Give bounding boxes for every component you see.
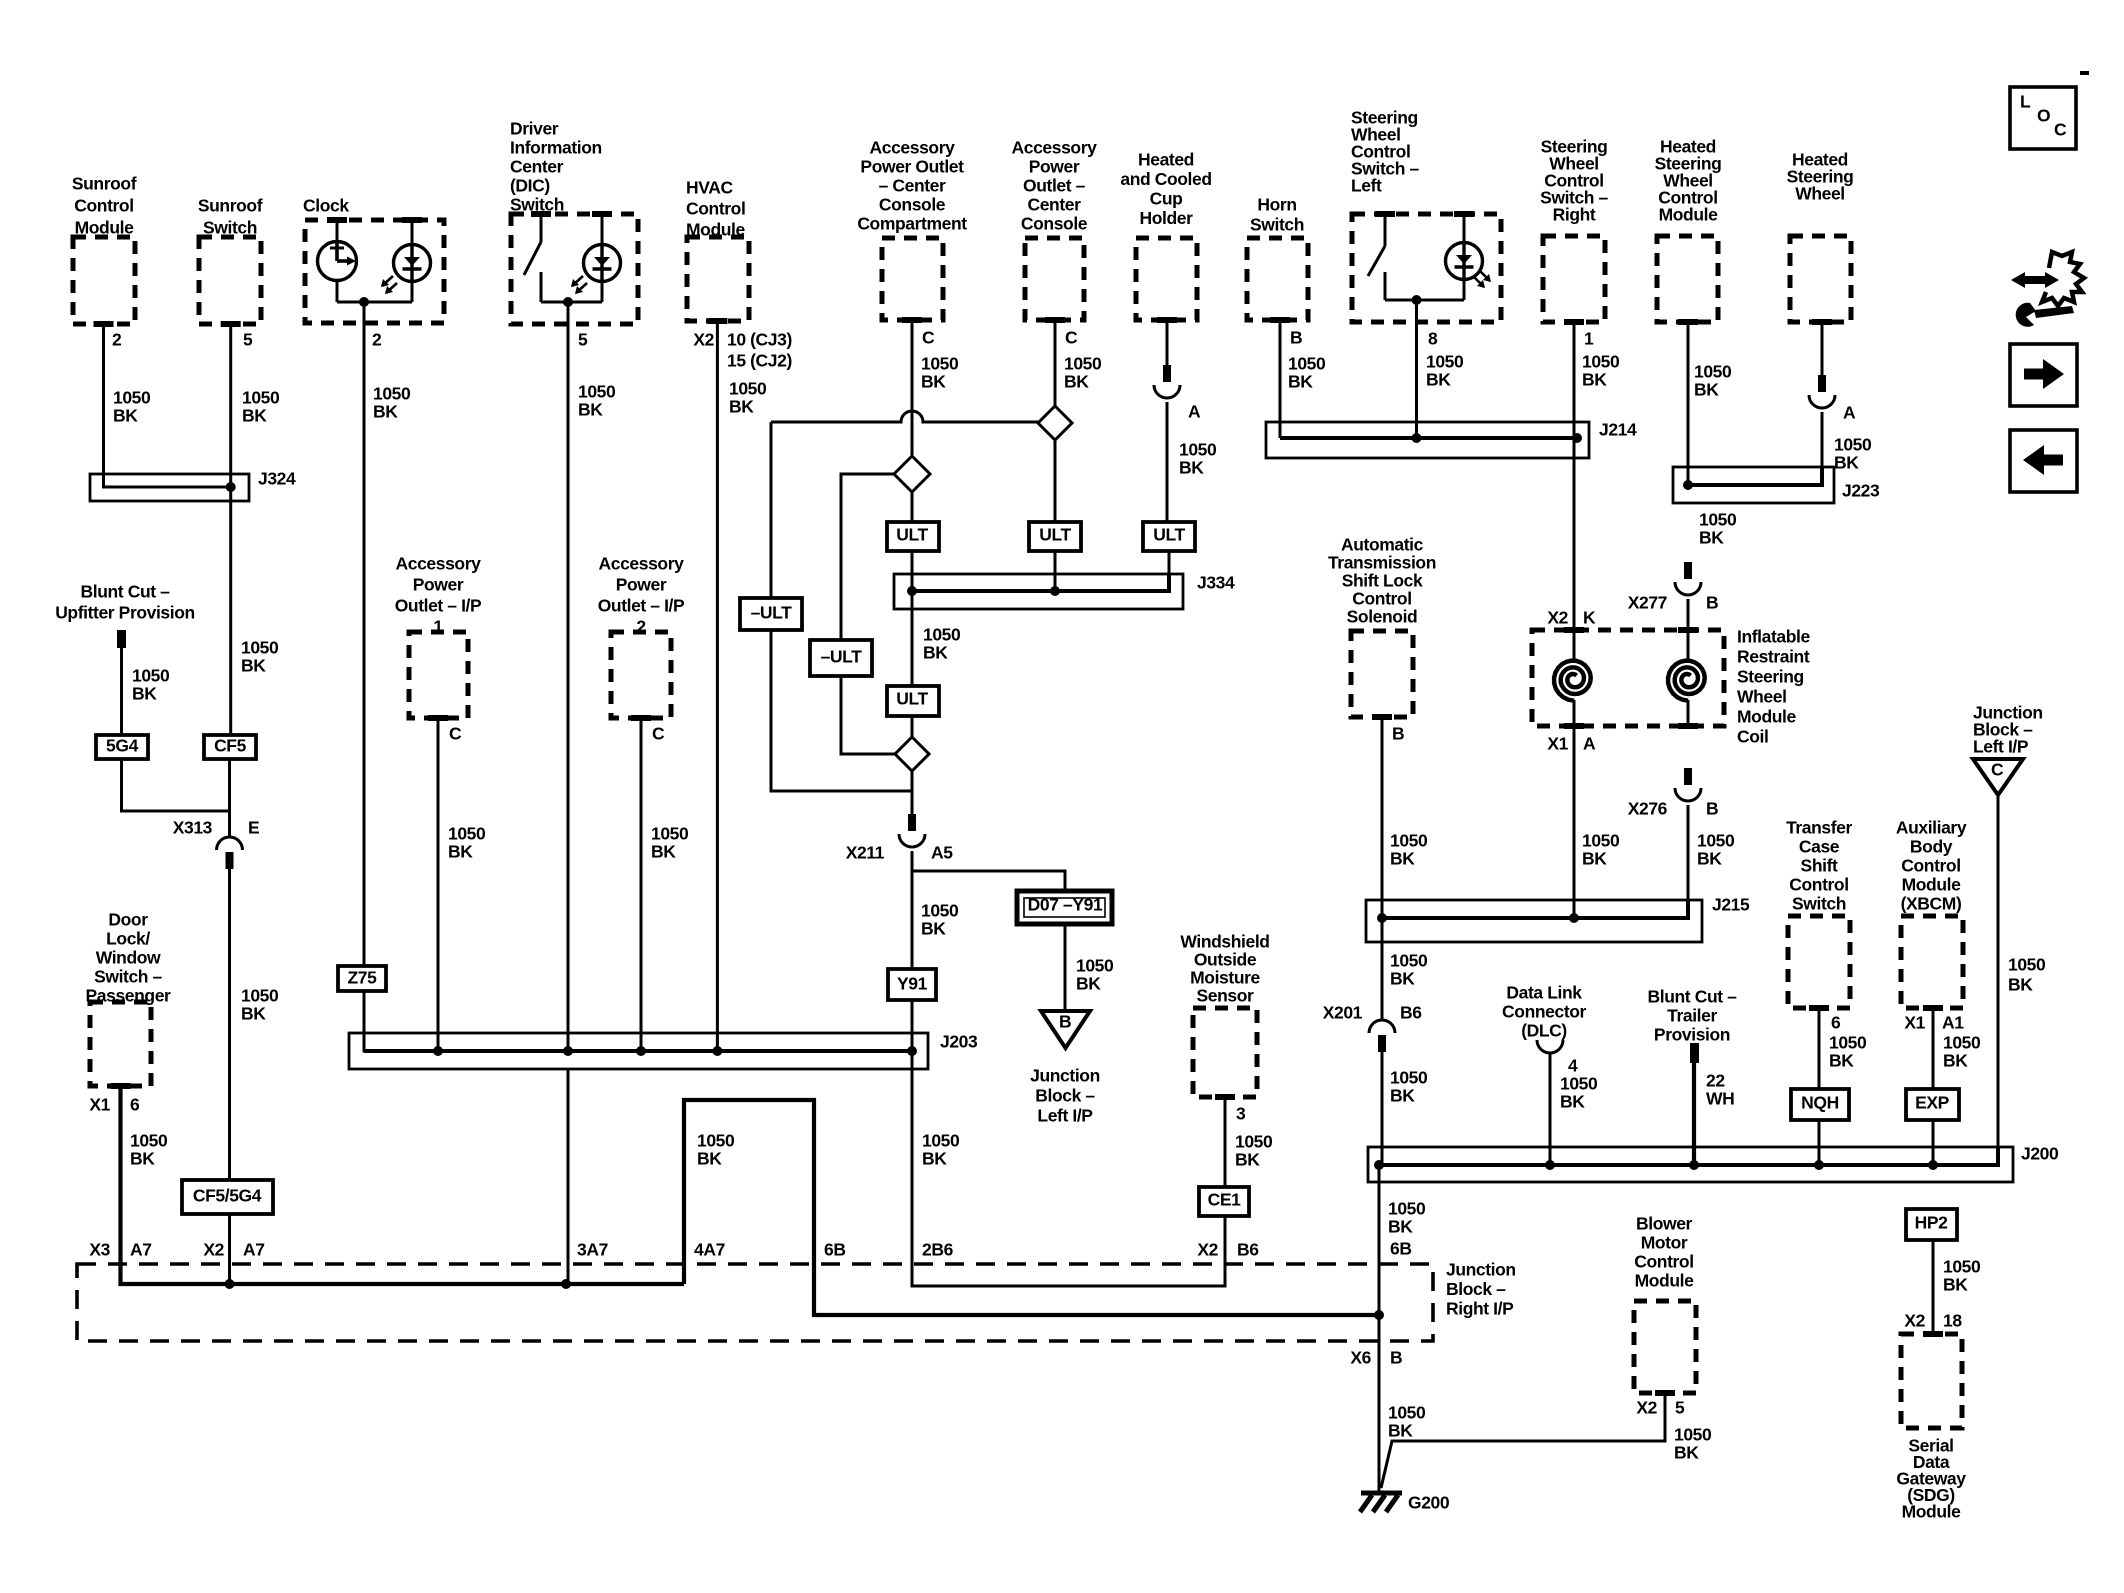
- SWCS-L switch contact: [1368, 214, 1385, 300]
- svg-text:Connector: Connector: [1502, 1002, 1586, 1022]
- splice Y91: [888, 969, 936, 1000]
- heated and cooled cup holder label: [1120, 150, 1211, 229]
- wire label 1050 BK: [1390, 1068, 1428, 1106]
- svg-text:C: C: [1991, 760, 2004, 780]
- svg-text:1050: 1050: [1943, 1257, 1981, 1277]
- svg-text:WH: WH: [1706, 1089, 1734, 1109]
- svg-text:Outside: Outside: [1194, 950, 1257, 970]
- wire X277 to coil box: [1687, 599, 1690, 630]
- X3 A7 labels: [89, 1240, 151, 1260]
- branch to D07-Y91: [912, 871, 1065, 891]
- svg-text:1050: 1050: [1582, 831, 1620, 851]
- svg-text:BK: BK: [241, 656, 266, 676]
- svg-text:ULT: ULT: [1153, 525, 1185, 545]
- svg-text:and Cooled: and Cooled: [1120, 169, 1211, 189]
- splice -ULT 2: [810, 640, 872, 676]
- wire label 22 WH: [1706, 1071, 1734, 1109]
- wire diamond2 left branch: [841, 474, 895, 754]
- diamond splice 2: [894, 456, 930, 492]
- svg-text:4: 4: [1568, 1056, 1578, 1076]
- svg-text:Blunt Cut –: Blunt Cut –: [81, 582, 171, 602]
- blower motor control module box: [1634, 1301, 1696, 1393]
- svg-text:B: B: [1392, 724, 1404, 744]
- svg-text:Power Outlet: Power Outlet: [860, 157, 964, 177]
- svg-text:BK: BK: [2008, 975, 2033, 995]
- svg-text:CE1: CE1: [1208, 1190, 1242, 1210]
- connector J334: [894, 574, 1183, 609]
- svg-text:2B6: 2B6: [922, 1240, 954, 1260]
- wire SWCS-L to J214: [1415, 300, 1418, 438]
- diamond splice 1: [1038, 406, 1072, 440]
- svg-text:2: 2: [112, 330, 122, 350]
- svg-text:Blunt Cut –: Blunt Cut –: [1648, 987, 1738, 1007]
- svg-text:BK: BK: [1699, 528, 1724, 548]
- inflatable restraint coil label: [1737, 627, 1810, 747]
- heated steering wheel box: [1790, 236, 1851, 322]
- clock internal junction: [337, 297, 412, 307]
- sunroof switch box: [199, 237, 261, 324]
- svg-text:J203: J203: [940, 1032, 978, 1052]
- svg-text:X1: X1: [1904, 1013, 1925, 1033]
- heated steering wheel label: [1787, 150, 1854, 204]
- splice -ULT 1: [740, 598, 802, 630]
- connector X277: [1684, 562, 1692, 579]
- svg-text:BK: BK: [697, 1149, 722, 1169]
- wire D07-Y91 to triangle: [1064, 924, 1067, 1011]
- tiny mark top right: [2080, 71, 2089, 75]
- svg-text:A7: A7: [243, 1240, 265, 1260]
- svg-text:3: 3: [1236, 1104, 1246, 1124]
- svg-text:1050: 1050: [1560, 1074, 1598, 1094]
- svg-text:X6: X6: [1350, 1348, 1371, 1368]
- svg-text:1050: 1050: [448, 824, 486, 844]
- wire label 1050 BK: [1834, 435, 1872, 473]
- wire sunroof control module to J324: [104, 324, 231, 487]
- svg-text:BK: BK: [1697, 849, 1722, 869]
- svg-text:Accessory: Accessory: [599, 554, 685, 574]
- svg-text:1050: 1050: [1390, 1068, 1428, 1088]
- heated steering wheel control module label: [1655, 137, 1722, 225]
- svg-text:Accessory: Accessory: [396, 554, 482, 574]
- svg-text:BK: BK: [1288, 372, 1313, 392]
- X2 5 labels: [1636, 1398, 1685, 1418]
- wire J215 down to X201: [1381, 918, 1384, 1021]
- svg-text:BK: BK: [1179, 458, 1204, 478]
- svg-text:1050: 1050: [1834, 435, 1872, 455]
- svg-text:L: L: [2020, 92, 2031, 112]
- svg-text:BK: BK: [1076, 974, 1101, 994]
- svg-text:BK: BK: [1829, 1051, 1854, 1071]
- wire label 1050 BK: [923, 625, 961, 663]
- svg-text:–ULT: –ULT: [821, 647, 863, 667]
- diamond splice 3: [895, 737, 929, 771]
- inflatable restraint steering wheel module coil box: [1532, 630, 1724, 726]
- svg-text:Control: Control: [1352, 589, 1411, 609]
- accessory power outlet IP 1 label: [395, 554, 482, 637]
- horizontal wire with hop to diamond: [771, 411, 1038, 422]
- LOC box: [2010, 87, 2076, 149]
- svg-text:A7: A7: [130, 1240, 152, 1260]
- wire XBCM to EXP: [1932, 1008, 1935, 1089]
- svg-text:Junction: Junction: [1446, 1260, 1516, 1280]
- splice CF5: [204, 735, 256, 759]
- svg-text:BK: BK: [729, 397, 754, 417]
- connector J214: [1266, 422, 1589, 458]
- svg-text:D07 –Y91: D07 –Y91: [1028, 895, 1103, 915]
- svg-text:1050: 1050: [242, 388, 280, 408]
- wire ATSLCS to J215: [1381, 717, 1384, 918]
- wire J203 down to 2B6 run: [912, 1051, 1225, 1286]
- svg-text:BK: BK: [1390, 969, 1415, 989]
- wire loop left branch: [771, 422, 912, 791]
- junction block left IP label (right): [1973, 703, 2043, 757]
- sunroof switch label: [198, 196, 263, 238]
- svg-text:(DIC): (DIC): [510, 176, 550, 196]
- transfer case shift control switch label: [1786, 818, 1852, 914]
- svg-text:X1: X1: [89, 1095, 110, 1115]
- svg-text:BK: BK: [1943, 1275, 1968, 1295]
- connector J200: [1368, 1147, 2013, 1182]
- svg-text:BK: BK: [373, 402, 398, 422]
- svg-text:X2: X2: [203, 1240, 224, 1260]
- blunt cut upfitter tick: [117, 630, 126, 648]
- svg-text:Information: Information: [510, 138, 602, 158]
- splice CE1: [1199, 1187, 1249, 1216]
- wire label 1050 BK: [1064, 354, 1102, 392]
- svg-text:BK: BK: [1235, 1150, 1260, 1170]
- junction dot 6B run joins JB-right wire: [1374, 1310, 1384, 1320]
- svg-text:BK: BK: [1388, 1421, 1413, 1441]
- svg-text:E: E: [248, 818, 259, 838]
- steering wheel control switch left label: [1351, 108, 1419, 196]
- svg-text:Left: Left: [1351, 176, 1382, 196]
- ground G200: [1360, 1493, 1402, 1512]
- wire label 1050 BK: [242, 388, 280, 426]
- svg-text:1050: 1050: [729, 379, 767, 399]
- svg-text:Sunroof: Sunroof: [72, 174, 137, 194]
- svg-text:1050: 1050: [1699, 510, 1737, 530]
- wire sensor to CE1: [1224, 1097, 1227, 1187]
- svg-text:Moisture: Moisture: [1190, 968, 1260, 988]
- svg-text:Control: Control: [1634, 1252, 1693, 1272]
- DIC switch contact: [524, 214, 541, 302]
- svg-text:(DLC): (DLC): [1521, 1021, 1567, 1041]
- wire label 1050 BK: [2008, 955, 2046, 995]
- svg-text:X201: X201: [1323, 1003, 1363, 1023]
- splice D07-Y91: [1017, 891, 1112, 924]
- svg-text:2: 2: [372, 330, 382, 350]
- svg-text:A: A: [1843, 403, 1856, 423]
- svg-text:Module: Module: [1902, 1502, 1962, 1522]
- svg-text:Sensor: Sensor: [1197, 986, 1255, 1006]
- svg-text:Windshield: Windshield: [1180, 932, 1269, 952]
- windshield outside moisture sensor label: [1180, 932, 1269, 1006]
- svg-text:Steering: Steering: [1737, 667, 1804, 687]
- svg-text:Power: Power: [616, 575, 667, 595]
- wire label 1050 BK: [1582, 831, 1620, 869]
- svg-text:Door: Door: [108, 910, 148, 930]
- svg-text:1050: 1050: [1388, 1199, 1426, 1219]
- junction dot on run at CF5/5G4 wire: [225, 1279, 235, 1289]
- svg-text:Inflatable: Inflatable: [1737, 627, 1810, 647]
- svg-text:Control: Control: [1789, 875, 1848, 895]
- wire APO-CC to diamond: [1054, 320, 1057, 406]
- svg-text:Module: Module: [1737, 707, 1797, 727]
- wire sunroof switch down through J324 to CF5: [229, 324, 232, 735]
- wire label 1050 BK: [1674, 1425, 1712, 1463]
- wire label 1050 BK: [1829, 1033, 1867, 1071]
- svg-text:X277: X277: [1628, 593, 1667, 613]
- svg-text:ULT: ULT: [896, 689, 928, 709]
- svg-text:Case: Case: [1799, 837, 1840, 857]
- svg-text:HVAC: HVAC: [686, 178, 733, 198]
- SWCS-L LED: [1446, 214, 1492, 300]
- svg-text:Y91: Y91: [897, 974, 928, 994]
- blower motor control module label: [1634, 1214, 1694, 1291]
- svg-text:Lock/: Lock/: [106, 929, 150, 949]
- wire label 1050 BK: [1560, 1074, 1598, 1112]
- svg-text:BK: BK: [242, 406, 267, 426]
- svg-text:A: A: [1583, 734, 1596, 754]
- driver information center (DIC) switch label: [510, 119, 602, 215]
- wire label 1050 BK: [1076, 956, 1114, 994]
- wire cup holder to connector A: [1166, 320, 1169, 365]
- wire label 1050 BK (X277): [1699, 510, 1737, 548]
- svg-text:1050: 1050: [1390, 831, 1428, 851]
- svg-text:BK: BK: [1582, 370, 1607, 390]
- svg-text:BK: BK: [922, 1149, 947, 1169]
- automatic transmission shift lock control solenoid label: [1328, 535, 1436, 627]
- wire door lock to ground run: [121, 1086, 685, 1284]
- svg-text:C: C: [1065, 328, 1078, 348]
- svg-text:4A7: 4A7: [694, 1240, 725, 1260]
- wire label 1050 BK: [1390, 831, 1428, 869]
- wire ULT2 into J334: [1054, 551, 1057, 591]
- connector J223: [1673, 467, 1834, 503]
- wire ULT1 into J334: [911, 551, 914, 591]
- svg-text:A: A: [1188, 402, 1201, 422]
- accessory power outlet IP 2 label: [598, 554, 685, 637]
- svg-text:X211: X211: [846, 843, 885, 863]
- wire label 1050 BK: [241, 986, 279, 1024]
- wire X276 to J215: [1687, 805, 1690, 900]
- connector X313: [217, 837, 243, 850]
- wire label 1050 BK: [651, 824, 689, 862]
- wire NQH to J200: [1818, 1120, 1821, 1165]
- svg-text:Automatic: Automatic: [1341, 535, 1424, 555]
- svg-text:1050: 1050: [1388, 1403, 1426, 1423]
- svg-text:BK: BK: [1943, 1051, 1968, 1071]
- wire label 1050 BK: [1697, 831, 1735, 869]
- svg-text:Heated: Heated: [1138, 150, 1194, 170]
- X1 A labels: [1547, 734, 1596, 754]
- svg-text:B6: B6: [1400, 1003, 1422, 1023]
- left arrow box: [2010, 430, 2077, 492]
- svg-text:Clock: Clock: [303, 196, 349, 216]
- wire connector A to ULT: [1166, 402, 1169, 522]
- svg-text:1050: 1050: [578, 382, 616, 402]
- wire DIC switch down to J203: [567, 302, 570, 1051]
- svg-text:22: 22: [1706, 1071, 1725, 1091]
- accessory power outlet center console box: [1025, 238, 1084, 320]
- serial data gateway SDG module box: [1901, 1334, 1962, 1428]
- connector J324: [90, 474, 249, 501]
- wire label 1050 BK: [1179, 440, 1217, 478]
- svg-text:X2: X2: [693, 330, 714, 350]
- connector J215: [1366, 900, 1702, 942]
- wire diamond1 to ULT: [1054, 440, 1057, 522]
- wire 5G4 to X313 junction: [122, 759, 230, 811]
- svg-text:Block –: Block –: [1035, 1086, 1095, 1106]
- svg-text:K: K: [1583, 608, 1596, 628]
- junction block left IP triangle B: [1041, 1011, 1090, 1048]
- svg-text:Motor: Motor: [1641, 1233, 1688, 1253]
- svg-text:6: 6: [1831, 1013, 1841, 1033]
- clock symbol: [318, 220, 357, 302]
- svg-text:1: 1: [1584, 329, 1594, 349]
- svg-text:Provision: Provision: [1654, 1025, 1730, 1045]
- wire APO IP2 to J203: [640, 718, 643, 1051]
- svg-text:10 (CJ3): 10 (CJ3): [727, 330, 792, 350]
- wire label 1050 BK: [1582, 352, 1620, 390]
- svg-text:Solenoid: Solenoid: [1347, 607, 1418, 627]
- sunroof control module box: [73, 237, 135, 324]
- svg-text:Module: Module: [1635, 1271, 1695, 1291]
- wire Z75 to J203: [364, 991, 912, 1051]
- wire APO IP1 to J203: [437, 718, 440, 1051]
- connector J203: [349, 1033, 928, 1069]
- svg-text:1050: 1050: [1426, 352, 1464, 372]
- svg-text:5: 5: [578, 330, 588, 350]
- blunt cut trailer provision label: [1648, 987, 1738, 1045]
- svg-text:1050: 1050: [1697, 831, 1735, 851]
- wire label 1050 BK: [113, 388, 151, 426]
- connector A heated steering wheel: [1818, 375, 1826, 392]
- svg-text:1050: 1050: [921, 354, 959, 374]
- svg-text:1050: 1050: [1694, 362, 1732, 382]
- X2 18 labels: [1904, 1311, 1962, 1331]
- svg-text:BK: BK: [1694, 380, 1719, 400]
- wire X201 to J200: [1381, 1052, 1384, 1165]
- wire label 1050 BK: [1388, 1403, 1426, 1441]
- svg-text:Z75: Z75: [348, 968, 378, 988]
- svg-text:Switch: Switch: [1250, 215, 1304, 235]
- wire X211 to Y91: [911, 851, 914, 969]
- svg-text:CF5: CF5: [214, 736, 247, 756]
- svg-text:J324: J324: [258, 469, 296, 489]
- svg-text:1050: 1050: [113, 388, 151, 408]
- wire label 1050 BK: [1426, 352, 1464, 390]
- connector X201: [1369, 1020, 1395, 1033]
- svg-text:Console: Console: [879, 195, 946, 215]
- wire ULT3 into J334: [1168, 551, 1171, 574]
- junction dot on run at DIC wire: [561, 1279, 571, 1289]
- svg-text:J223: J223: [1842, 481, 1880, 501]
- wire diamond2 to ULT1: [911, 492, 914, 522]
- windshield outside moisture sensor box: [1193, 1008, 1257, 1097]
- svg-text:J200: J200: [2021, 1144, 2059, 1164]
- accessory power outlet IP 2 box: [611, 632, 671, 718]
- svg-text:6B: 6B: [1390, 1239, 1412, 1259]
- wire DIC continue to run: [567, 1069, 570, 1284]
- svg-text:J334: J334: [1197, 573, 1235, 593]
- svg-text:1050: 1050: [1064, 354, 1102, 374]
- DLC connector arc: [1537, 1040, 1563, 1053]
- connector A cup holder: [1163, 365, 1171, 382]
- wire APO-CCC down (with hop) to diamond: [911, 320, 914, 456]
- horn switch label: [1250, 195, 1304, 235]
- svg-text:1050: 1050: [1288, 354, 1326, 374]
- X313 E labels: [173, 818, 260, 838]
- svg-text:1050: 1050: [1390, 951, 1428, 971]
- svg-text:G200: G200: [1408, 1493, 1450, 1513]
- wire label 1050 BK: [448, 824, 486, 862]
- svg-text:1050: 1050: [1943, 1033, 1981, 1053]
- svg-text:Control: Control: [1901, 856, 1960, 876]
- svg-text:3A7: 3A7: [577, 1240, 608, 1260]
- svg-text:BK: BK: [241, 1004, 266, 1024]
- svg-text:Blower: Blower: [1636, 1214, 1693, 1234]
- svg-text:8: 8: [1428, 329, 1438, 349]
- svg-text:X276: X276: [1628, 799, 1668, 819]
- svg-text:J214: J214: [1599, 420, 1637, 440]
- svg-text:BK: BK: [651, 842, 676, 862]
- svg-text:BK: BK: [921, 372, 946, 392]
- steering wheel control switch right label: [1540, 137, 1608, 225]
- wire horn switch to J214: [1279, 320, 1282, 438]
- serial data gateway label: [1896, 1436, 1966, 1522]
- svg-text:B: B: [1059, 1012, 1071, 1032]
- svg-text:X2: X2: [1547, 608, 1568, 628]
- X211 A5 labels: [846, 843, 954, 863]
- svg-text:Outlet –: Outlet –: [1023, 176, 1086, 196]
- svg-text:BK: BK: [1834, 453, 1859, 473]
- HVAC control module label: [686, 178, 746, 240]
- horn switch box: [1247, 238, 1308, 320]
- svg-text:5G4: 5G4: [106, 736, 139, 756]
- svg-text:BK: BK: [1674, 1443, 1699, 1463]
- wire label 1050 BK: [130, 1131, 168, 1169]
- coil 2: [1668, 630, 1705, 726]
- svg-text:Center: Center: [510, 157, 564, 177]
- svg-text:C: C: [449, 724, 462, 744]
- svg-text:Outlet – I/P: Outlet – I/P: [598, 596, 685, 616]
- DIC LED: [571, 214, 621, 302]
- svg-text:Transfer: Transfer: [1786, 818, 1852, 838]
- svg-text:1050: 1050: [241, 638, 279, 658]
- steering wheel control switch left box: [1352, 214, 1501, 322]
- svg-text:X313: X313: [173, 818, 213, 838]
- svg-text:Body: Body: [1910, 837, 1953, 857]
- svg-text:18: 18: [1943, 1311, 1962, 1331]
- svg-text:Accessory: Accessory: [1012, 138, 1098, 158]
- wire label 1050 BK: [729, 379, 767, 417]
- splice NQH: [1791, 1089, 1849, 1120]
- svg-text:Coil: Coil: [1737, 727, 1768, 747]
- svg-text:BK: BK: [1390, 849, 1415, 869]
- heated steering wheel control module box: [1657, 236, 1718, 322]
- pin labels X2 10(CJ3) 15(CJ2): [693, 330, 792, 371]
- diagnostic icon arrows and wrench: [2011, 252, 2084, 327]
- svg-text:(XBCM): (XBCM): [1901, 894, 1962, 914]
- svg-text:Control: Control: [686, 199, 745, 219]
- wire HVAC to J203: [716, 321, 719, 1051]
- wire label 1050 BK: [578, 382, 616, 420]
- svg-text:Control: Control: [74, 196, 133, 216]
- wire HSWCM to J223: [1687, 322, 1690, 485]
- svg-text:BK: BK: [921, 919, 946, 939]
- svg-text:X2: X2: [1197, 1240, 1218, 1260]
